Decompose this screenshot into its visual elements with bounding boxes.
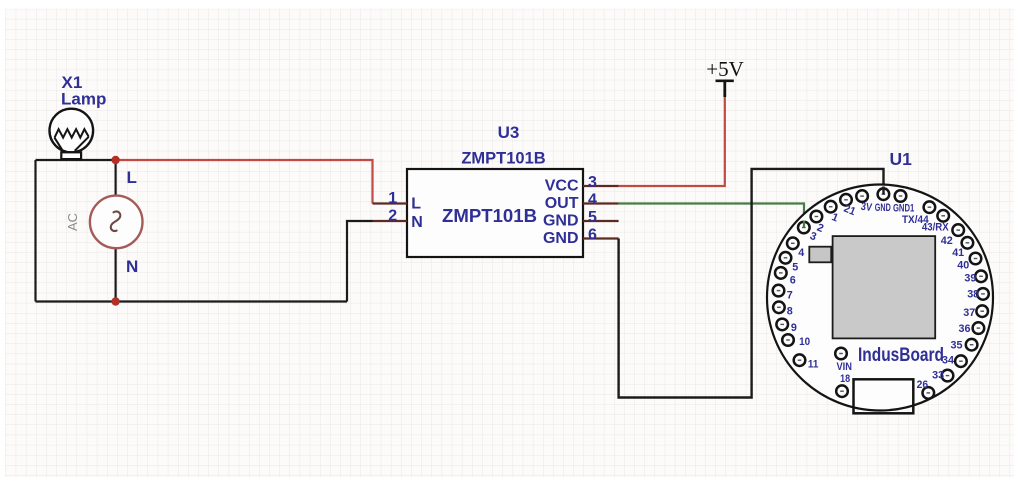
pad 35 xyxy=(966,339,978,351)
pad TX44 xyxy=(924,201,936,213)
svg-text:5: 5 xyxy=(792,262,798,274)
wire: AC source bottom down to bottom junction xyxy=(114,248,116,302)
svg-text:4: 4 xyxy=(798,247,805,259)
svg-text:35: 35 xyxy=(951,340,963,352)
svg-text:L: L xyxy=(411,196,421,213)
pad 40 xyxy=(970,253,982,265)
svg-text:N: N xyxy=(126,257,138,276)
svg-text:GND: GND xyxy=(543,212,579,229)
svg-text:38: 38 xyxy=(967,289,979,301)
pad 42 xyxy=(952,224,964,236)
pad 11 xyxy=(794,354,806,366)
pad 8 xyxy=(773,302,785,314)
board U1 outline xyxy=(767,185,993,411)
pad 37 xyxy=(976,305,988,317)
ac source xyxy=(90,196,143,249)
pad 3 xyxy=(798,222,810,234)
wire tail into pad 3 xyxy=(803,221,805,228)
svg-text:10: 10 xyxy=(799,336,810,348)
svg-text:4: 4 xyxy=(588,192,597,209)
svg-text:6: 6 xyxy=(588,227,597,244)
pad 41 xyxy=(962,237,974,249)
wire: black GND from U3 pin 6 around to board top GND pad xyxy=(619,169,884,398)
lamp X1 xyxy=(50,109,94,159)
svg-text:U1: U1 xyxy=(890,149,913,169)
pin 6 stub xyxy=(583,237,619,239)
pad 33 xyxy=(942,370,954,382)
svg-text:11: 11 xyxy=(808,358,819,370)
svg-text:8: 8 xyxy=(787,306,793,318)
pad 34 xyxy=(955,355,967,367)
svg-text:AC: AC xyxy=(65,213,80,231)
pad 4 xyxy=(787,238,799,250)
svg-text:43/RX: 43/RX xyxy=(922,222,949,234)
pad 38 xyxy=(977,288,989,300)
svg-text:42: 42 xyxy=(941,235,953,247)
svg-text:40: 40 xyxy=(957,260,969,272)
pin 3 stub xyxy=(583,185,619,187)
wire: junction down to AC source top xyxy=(114,160,116,196)
svg-text:IndusBoard: IndusBoard xyxy=(858,345,944,366)
pad 2 xyxy=(811,211,823,223)
pin 5 stub xyxy=(583,220,619,222)
wire: red from +5V to U3 pin 3 (VCC) xyxy=(619,97,725,186)
pin 4 stub xyxy=(583,202,619,204)
svg-text:6: 6 xyxy=(790,274,796,286)
IC U3 ZMPT101B body xyxy=(407,169,583,257)
wire: green from U3 pin 4 (OUT) to board pad 3 xyxy=(619,204,804,228)
svg-text:GND1: GND1 xyxy=(893,203,914,215)
svg-text:33: 33 xyxy=(932,369,944,381)
wire: top horizontal from left corner to junction under lamp xyxy=(36,159,116,161)
svg-text:VCC: VCC xyxy=(545,177,579,194)
pad RX43 xyxy=(937,210,949,222)
wire: bottom horizontal of source loop to riser xyxy=(36,300,348,302)
pad 5 xyxy=(780,252,792,264)
pad 6 xyxy=(775,267,787,279)
pad VIN xyxy=(835,348,847,360)
pad 39 xyxy=(975,271,987,283)
power +5V symbol xyxy=(706,57,744,97)
pad 1 xyxy=(825,201,837,213)
svg-text:7: 7 xyxy=(787,289,793,301)
svg-text:L: L xyxy=(127,168,137,187)
svg-text:39: 39 xyxy=(964,272,976,284)
usb connector xyxy=(854,379,914,413)
pad 36 xyxy=(973,322,985,334)
pad 18 xyxy=(836,385,848,397)
svg-text:41: 41 xyxy=(952,247,964,259)
wire: red L wire from lamp junction to U3 pin 1 xyxy=(116,160,373,204)
pad 10 xyxy=(782,334,794,346)
svg-text:VIN: VIN xyxy=(836,361,852,373)
svg-text:GND: GND xyxy=(543,230,579,247)
svg-text:N: N xyxy=(411,214,423,231)
svg-text:OUT: OUT xyxy=(545,195,579,212)
wire: left vertical side of source loop xyxy=(34,160,36,302)
chip (MCU) on board xyxy=(833,236,936,338)
pin 2 stub xyxy=(373,220,408,222)
pad 7 xyxy=(773,285,785,297)
pad GND1 xyxy=(895,190,907,202)
pad 3V xyxy=(856,190,868,202)
svg-text:GND: GND xyxy=(875,202,891,214)
svg-text:2: 2 xyxy=(388,208,397,225)
pin 1 stub xyxy=(373,202,408,204)
pad GND xyxy=(878,188,890,200)
svg-text:1: 1 xyxy=(388,190,397,207)
wire: riser up to pin 2 level xyxy=(347,221,373,302)
small component left of chip xyxy=(809,247,831,263)
junction dot top (L node) xyxy=(111,156,119,164)
svg-text:ZMPT101B: ZMPT101B xyxy=(442,205,537,226)
pad 21 xyxy=(840,194,852,206)
pad 26 xyxy=(923,387,935,399)
svg-text:36: 36 xyxy=(959,323,971,335)
svg-text:ZMPT101B: ZMPT101B xyxy=(461,150,545,168)
svg-text:U3: U3 xyxy=(498,123,520,142)
svg-text:9: 9 xyxy=(791,322,797,334)
svg-text:5: 5 xyxy=(588,209,597,226)
pad 9 xyxy=(776,319,788,331)
svg-text:37: 37 xyxy=(963,307,975,319)
svg-text:3V: 3V xyxy=(860,201,873,214)
svg-text:Lamp: Lamp xyxy=(61,90,106,109)
svg-text:3: 3 xyxy=(588,174,597,191)
svg-text:+5V: +5V xyxy=(706,57,744,81)
junction dot bottom (N node) xyxy=(111,297,119,305)
svg-text:18: 18 xyxy=(840,373,850,385)
svg-text:26: 26 xyxy=(917,379,929,391)
wire tail into GND pad xyxy=(882,187,884,195)
